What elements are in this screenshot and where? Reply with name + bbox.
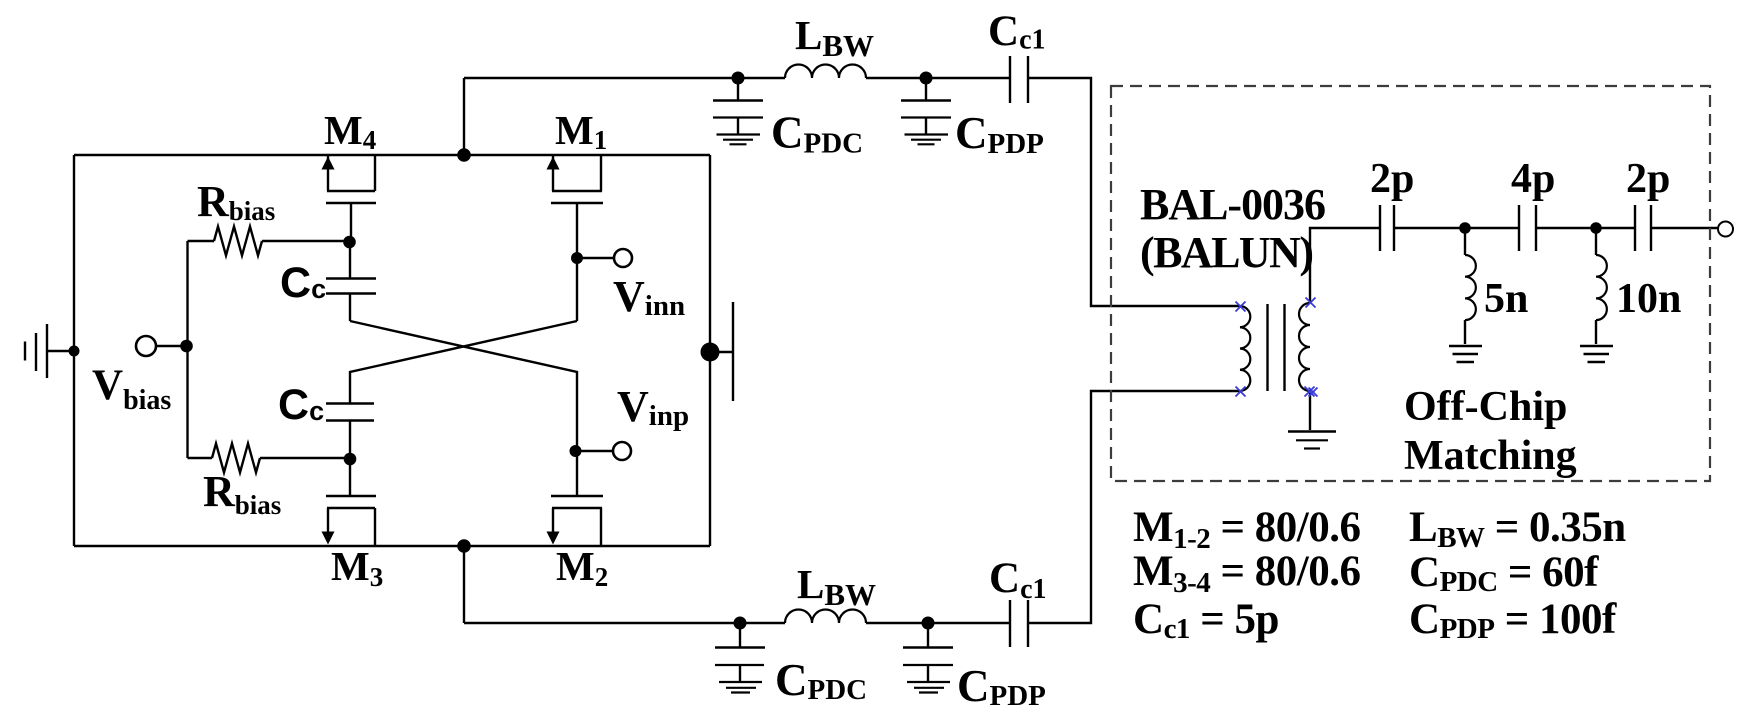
terminal Vinn xyxy=(577,249,632,267)
svg-text:5n: 5n xyxy=(1484,276,1528,322)
capacitor 2p (first) xyxy=(1380,205,1394,251)
svg-text:CPDC = 60f: CPDC = 60f xyxy=(1409,549,1599,598)
wire riser to top RF rail xyxy=(463,78,465,155)
wire Cc1 to balun primary (top) xyxy=(1028,78,1240,306)
wire cross-couple diagonal (top Cc to M2 gate) xyxy=(350,321,577,451)
wire matching rail 3 xyxy=(1651,227,1718,229)
capacitor Cc1 (bottom) xyxy=(1010,600,1028,647)
svg-text:2p: 2p xyxy=(1626,156,1670,202)
ground CPDP (top) xyxy=(905,135,949,145)
node M3 gate xyxy=(344,453,357,466)
capacitor 4p xyxy=(1519,205,1536,251)
ground balun secondary xyxy=(1288,432,1336,449)
svg-text:Matching: Matching xyxy=(1404,433,1577,479)
node top rail to M4/M1 xyxy=(457,148,471,162)
ground CPDP (bottom) xyxy=(907,682,950,693)
svg-text:BAL-0036: BAL-0036 xyxy=(1140,180,1326,229)
wire Cc1 to balun primary (bottom) xyxy=(1028,391,1240,623)
wire top-left rail to M4/M1 drains xyxy=(74,154,710,156)
terminal Vinp xyxy=(575,442,631,460)
svg-text:10n: 10n xyxy=(1616,276,1681,322)
svg-text:2p: 2p xyxy=(1370,156,1414,202)
wire bottom-left rail (M3/M2 sources) xyxy=(74,545,710,547)
node bottom rail junction xyxy=(457,539,471,553)
node Vinn xyxy=(571,252,583,264)
node Vbias xyxy=(180,340,193,353)
wire matching rail 2 xyxy=(1536,227,1635,229)
wire cross-couple diagonal (M1 gate to bottom Cc) xyxy=(350,321,577,403)
inductor LBW (top) xyxy=(785,65,866,79)
inductor 10n xyxy=(1596,228,1607,344)
svg-text:M3-4 = 80/0.6: M3-4 = 80/0.6 xyxy=(1133,548,1360,599)
capacitor 2p (second) xyxy=(1635,205,1651,251)
dashed box off-chip xyxy=(1111,86,1710,481)
transformer polarity marks (blue x) xyxy=(1236,298,1318,397)
resistor Rbias (bottom) xyxy=(188,444,351,473)
wire secondary top to matching rail xyxy=(1310,228,1380,303)
transformer U1 primary winding xyxy=(1240,306,1250,391)
wire top RF rail xyxy=(464,77,1010,79)
node junction at left ground xyxy=(69,346,80,357)
capacitor CPDP (bottom) xyxy=(903,623,953,681)
transformer U1 secondary winding xyxy=(1299,303,1310,391)
capacitor Cc1 (top) xyxy=(1010,56,1028,103)
ground CPDC (top) xyxy=(717,135,761,145)
inductor LBW (bottom) xyxy=(785,610,866,624)
transistor M4 xyxy=(322,155,377,241)
node CPDC (bottom) xyxy=(734,617,747,630)
ground 5n xyxy=(1449,346,1482,362)
ground CPDC (bottom) xyxy=(719,682,762,693)
port stub bar at common drain xyxy=(710,302,733,401)
node M4 gate xyxy=(343,236,356,249)
transistor M3 xyxy=(322,459,377,546)
svg-text:4p: 4p xyxy=(1511,156,1555,202)
transformer U1 core xyxy=(1268,304,1285,391)
wire Vbias riser xyxy=(186,241,188,458)
wire secondary bottom to ground xyxy=(1309,391,1311,430)
ground 10n xyxy=(1580,346,1613,362)
inductor 5n xyxy=(1465,228,1476,344)
node Vinp xyxy=(570,445,582,457)
node 10n shunt xyxy=(1590,222,1602,234)
node CPDP (top) xyxy=(920,72,933,85)
transistor M2 xyxy=(547,451,604,546)
wire riser to bottom RF rail xyxy=(463,546,465,623)
transistor M1 xyxy=(547,155,604,321)
capacitor CPDC (bottom) xyxy=(715,623,765,681)
svg-text:Cc1 = 5p: Cc1 = 5p xyxy=(1133,596,1279,645)
node CPDC (top) xyxy=(732,72,745,85)
node 5n shunt xyxy=(1459,222,1471,234)
capacitor CPDP (top) xyxy=(901,78,951,134)
wire bottom RF rail xyxy=(464,622,1010,624)
wire left vertical bus xyxy=(73,155,75,546)
ground (left, sideways) xyxy=(25,324,74,378)
capacitor Cc (top) xyxy=(326,241,376,321)
wire right core vertical (M1 drain to M2 drain) xyxy=(709,155,711,546)
svg-text:(BALUN): (BALUN) xyxy=(1140,228,1314,277)
capacitor Cc (bottom) xyxy=(326,404,374,460)
node CPDP (bottom) xyxy=(922,617,935,630)
terminal Vbias xyxy=(136,336,186,356)
svg-text:Off-Chip: Off-Chip xyxy=(1404,384,1567,430)
terminal RF output xyxy=(1718,222,1733,237)
node common drain (output) xyxy=(701,343,720,362)
wire matching rail 1 xyxy=(1394,227,1519,229)
capacitor CPDC (top) xyxy=(713,78,763,134)
resistor Rbias (top) xyxy=(188,227,350,256)
